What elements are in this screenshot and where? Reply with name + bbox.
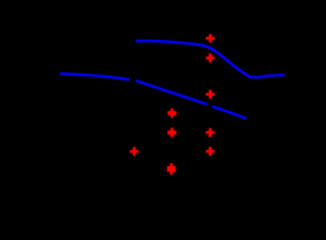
red plus marker I (130, 147, 139, 156)
red plus marker D (two overlapping points) (168, 108, 177, 117)
blue curve 2 segment c (lower line, right part) (212, 106, 247, 118)
blue curve 2 segment a (lower line, left part) (60, 74, 130, 80)
red plus marker B (206, 53, 215, 62)
blue curve 1 (upper line) (136, 41, 285, 78)
red plus marker A (206, 34, 215, 43)
blue curve 2 segment b (lower line, middle part) (136, 81, 208, 105)
red plus marker F (206, 128, 215, 137)
red plus marker G (206, 147, 215, 156)
red plus marker C (206, 90, 215, 99)
red plus marker E (two overlapping points) (168, 128, 177, 137)
red plus marker H (two overlapping points) (167, 163, 176, 175)
